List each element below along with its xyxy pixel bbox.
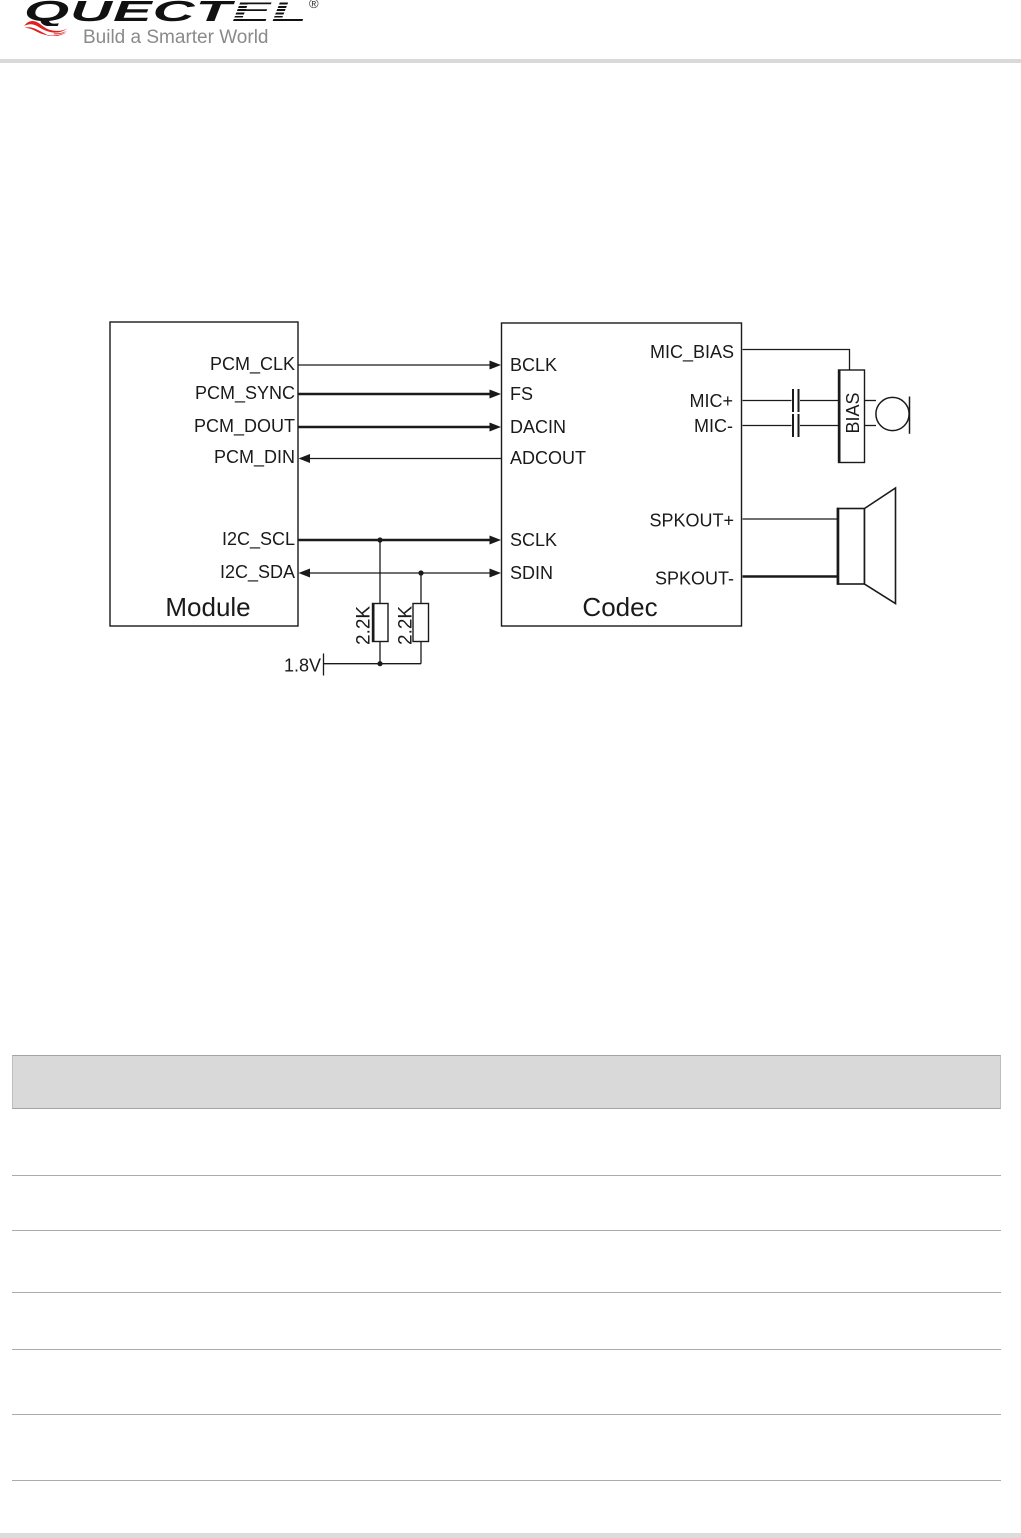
logo red swoosh bbox=[23, 20, 69, 36]
table row separator 5 bbox=[12, 1414, 1001, 1415]
header rule bar bbox=[0, 59, 1021, 63]
wire PCM_SYNC to FS bbox=[298, 390, 501, 399]
wire I2C_SCL junction down to resistor R1 bbox=[379, 540, 381, 604]
microphone MK1 bbox=[876, 397, 910, 434]
svg-text:2.2K: 2.2K bbox=[396, 606, 417, 645]
svg-text:PCM_DOUT: PCM_DOUT bbox=[194, 416, 295, 437]
svg-text:SDIN: SDIN bbox=[510, 563, 553, 583]
1.8V supply terminal tick bbox=[323, 654, 325, 676]
junction dot on 1.8V rail bbox=[377, 661, 382, 666]
registered trademark symbol bbox=[309, 0, 319, 11]
svg-text:SPKOUT+: SPKOUT+ bbox=[649, 511, 734, 531]
wire I2C_SDA to SDIN (bidirectional) bbox=[299, 569, 502, 578]
capacitor C1 (MIC+ AC coupling) bbox=[793, 389, 799, 412]
table row separator 2 bbox=[12, 1230, 1001, 1231]
svg-text:PCM_CLK: PCM_CLK bbox=[210, 354, 295, 375]
svg-text:FS: FS bbox=[510, 384, 533, 404]
svg-text:Module: Module bbox=[165, 592, 250, 622]
mask over Q descender bbox=[36, 26, 70, 34]
wire ADCOUT to PCM_DIN bbox=[299, 454, 502, 463]
Quectel logo wordmark bbox=[24, 0, 308, 29]
svg-text:DACIN: DACIN bbox=[510, 417, 566, 437]
svg-text:BCLK: BCLK bbox=[510, 355, 557, 375]
wire I2C_SCL to SCLK bbox=[298, 536, 501, 545]
svg-text:I2C_SDA: I2C_SDA bbox=[220, 562, 295, 583]
wire I2C_SDA junction down to resistor R2 bbox=[420, 573, 422, 604]
svg-text:1.8V: 1.8V bbox=[284, 656, 321, 676]
wire MIC_BIAS to BIAS block bbox=[743, 350, 850, 371]
table row separator 6 bbox=[12, 1480, 1001, 1481]
BIAS network block bbox=[839, 370, 865, 463]
wire capacitor C1 to BIAS block bbox=[800, 400, 838, 402]
speaker LS1 bbox=[838, 488, 896, 604]
wire PCM_DOUT to DACIN bbox=[298, 423, 501, 432]
table row separator 1 bbox=[12, 1175, 1001, 1176]
svg-text:I2C_SCL: I2C_SCL bbox=[222, 529, 295, 550]
wire capacitor C2 to BIAS block bbox=[800, 425, 838, 427]
wire MIC+ to capacitor C1 bbox=[743, 400, 792, 402]
table row separator 3 bbox=[12, 1292, 1001, 1293]
wire MIC- to capacitor C2 bbox=[743, 425, 792, 427]
svg-text:SPKOUT-: SPKOUT- bbox=[655, 569, 734, 589]
wire resistor R1 bottom to 1.8V rail bbox=[379, 642, 381, 664]
block Codec bbox=[502, 323, 742, 626]
wire BIAS to microphone (+) bbox=[865, 400, 877, 402]
svg-text:PCM_DIN: PCM_DIN bbox=[214, 447, 295, 468]
block Module bbox=[110, 322, 298, 626]
wire PCM_CLK to BCLK bbox=[298, 361, 501, 370]
table header row bbox=[12, 1055, 1001, 1109]
svg-text:SCLK: SCLK bbox=[510, 530, 557, 550]
1.8V power rail wire bbox=[324, 663, 422, 665]
wire SPKOUT+ to speaker bbox=[743, 518, 839, 520]
wire SPKOUT- to speaker bbox=[743, 575, 839, 578]
svg-text:MIC+: MIC+ bbox=[689, 391, 733, 411]
wire BIAS to microphone (-) bbox=[865, 425, 877, 427]
svg-text:BIAS: BIAS bbox=[843, 392, 863, 433]
footer rule bar bbox=[0, 1533, 1021, 1538]
table row separator 4 bbox=[12, 1349, 1001, 1350]
junction dot on I2C_SDA at pull-up R2 bbox=[418, 570, 423, 575]
svg-text:ADCOUT: ADCOUT bbox=[510, 448, 586, 468]
logo tagline bbox=[83, 27, 269, 49]
svg-text:2.2K: 2.2K bbox=[354, 606, 375, 645]
junction dot on I2C_SCL at pull-up R1 bbox=[377, 537, 382, 542]
resistor R1 2.2K bbox=[373, 603, 389, 642]
wire resistor R2 bottom to 1.8V rail bbox=[420, 642, 422, 664]
svg-text:Codec: Codec bbox=[582, 592, 657, 622]
svg-text:MIC_BIAS: MIC_BIAS bbox=[650, 342, 734, 363]
svg-text:PCM_SYNC: PCM_SYNC bbox=[195, 383, 295, 404]
svg-text:MIC-: MIC- bbox=[694, 416, 733, 436]
circuit diagram bbox=[0, 0, 1021, 720]
capacitor C2 (MIC- AC coupling) bbox=[793, 414, 799, 437]
resistor R2 2.2K bbox=[413, 604, 429, 642]
